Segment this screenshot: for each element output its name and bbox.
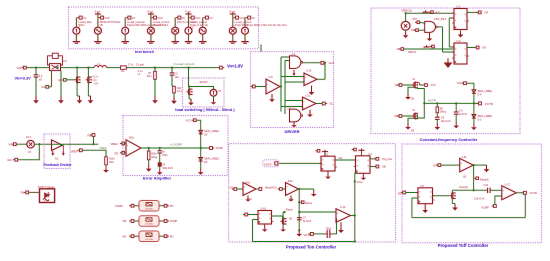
wire [495, 196, 502, 205]
buffer cell X3 [139, 231, 159, 242]
ground [311, 88, 313, 92]
comparator U-14 [336, 209, 351, 223]
diode D6 SER_LABEL [199, 158, 203, 161]
ground [436, 123, 438, 127]
svg-text:D-3: D-3 [478, 119, 483, 122]
svg-text:Q: Q [464, 14, 466, 16]
svg-text:A-cm: A-cm [229, 10, 235, 13]
svg-text:IC=0: IC=0 [62, 61, 68, 63]
ground [455, 122, 457, 126]
wire [66, 79, 74, 81]
buffer U-10 [304, 73, 317, 86]
port VCMP [159, 220, 164, 222]
diode D4 SER_LABEL [472, 90, 476, 93]
ground [154, 96, 156, 100]
resistor R4 [121, 66, 127, 69]
ground [309, 111, 311, 115]
svg-text:VREF: VREF [71, 149, 78, 153]
Feedback Divider box [44, 134, 70, 169]
op-amp E1 [52, 140, 63, 151]
ground [293, 122, 295, 125]
svg-text:Q: Q [367, 160, 369, 162]
svg-text:OP: OP [485, 12, 489, 15]
svg-text:-: - [460, 168, 461, 171]
wire clk [406, 12, 454, 14]
DRIVER box [251, 52, 334, 128]
svg-text:U-10: U-10 [306, 70, 312, 73]
wire VCTR node [417, 87, 424, 118]
svg-text:R10: R10 [327, 228, 332, 231]
ground [447, 58, 449, 62]
port ON2 [399, 48, 401, 50]
svg-text:-t(3.3)/0u: -t(3.3)/0u [145, 207, 154, 210]
ground [313, 189, 315, 191]
svg-text:Proposed Ton Controller: Proposed Ton Controller [286, 245, 337, 250]
svg-text:PD: PD [170, 234, 174, 238]
flip-flop U-1 [454, 9, 467, 30]
ground [282, 224, 284, 227]
wire [466, 83, 474, 123]
svg-text:test bench: test bench [135, 50, 155, 54]
capacitor C comp [159, 147, 161, 149]
port ON lower [397, 84, 399, 86]
wire driver mesh [280, 86, 281, 88]
svg-text:U-6: U-6 [457, 40, 462, 43]
wire [412, 197, 418, 199]
ground [213, 99, 215, 102]
svg-text:VCC: VCC [186, 119, 191, 122]
svg-text:VCTR: VCTR [485, 102, 494, 106]
resistor R6 [436, 102, 438, 104]
svg-text:VCMP: VCMP [115, 204, 123, 208]
svg-text:-: - [127, 152, 128, 155]
svg-text:400p IC=0: 400p IC=0 [162, 168, 173, 170]
ground [247, 196, 249, 197]
svg-text:Prop: Prop [357, 180, 363, 184]
test bench source column V1 [75, 18, 77, 28]
port VCC right [420, 84, 425, 86]
diode D3 SER_LABEL [472, 115, 476, 118]
svg-text:14.4: 14.4 [177, 90, 182, 93]
transistor Q toff [450, 195, 452, 197]
power VCC [352, 149, 354, 151]
buffer U-11 [303, 97, 317, 110]
svg-text:4p IC=0: 4p IC=0 [303, 220, 312, 223]
port PD [159, 205, 164, 207]
Error Amplifier box [123, 116, 228, 176]
wire [433, 195, 450, 197]
ground [105, 165, 107, 167]
port Ramp [298, 201, 300, 203]
port VCTR toff [521, 192, 523, 194]
ground [340, 222, 342, 226]
wire load branch [187, 67, 189, 69]
svg-text:VC: VC [252, 17, 256, 20]
svg-text:-: - [305, 82, 306, 85]
svg-text:Constant-frequency Controller: Constant-frequency Controller [419, 137, 477, 142]
ground [56, 67, 58, 69]
wire [473, 164, 486, 166]
svg-text:SER_LABEL: SER_LABEL [204, 157, 219, 161]
svg-text:ON: ON [482, 47, 486, 50]
svg-text:RampS: RampS [460, 186, 469, 189]
ground [486, 165, 488, 169]
capacitor C7 [297, 217, 302, 219]
wire [351, 215, 355, 217]
test bench source column V4 [150, 12, 152, 14]
svg-text:R10: R10 [109, 161, 114, 164]
svg-text:-: - [337, 219, 338, 222]
wire [16, 143, 27, 145]
ground [473, 124, 475, 128]
gate FFD_RST [425, 21, 436, 32]
svg-text:MSECLK: MSECLK [402, 9, 413, 13]
svg-text:AC 1: AC 1 [26, 136, 32, 139]
ground [173, 97, 175, 101]
test bench box [69, 7, 259, 49]
wire bottom feedback toff [524, 194, 526, 217]
svg-text:FBCLK: FBCLK [408, 50, 417, 54]
svg-text:U-9: U-9 [269, 76, 274, 79]
ground [454, 204, 456, 208]
svg-text:VC: VC [83, 17, 87, 20]
svg-text:VCC: VCC [195, 17, 200, 20]
power VCC [315, 150, 317, 152]
svg-text:VC1: VC1 [17, 66, 23, 70]
ground [405, 32, 407, 36]
transistor M3 [187, 91, 189, 93]
port error amp in- [120, 152, 122, 154]
svg-text:GB: GB [382, 166, 386, 169]
ground [271, 96, 273, 100]
net label Ramp [283, 211, 285, 213]
comparator U-17 [502, 186, 517, 200]
ground [190, 99, 192, 103]
test bench source column V2 [97, 12, 99, 14]
svg-text:Error Amplifier: Error Amplifier [143, 176, 172, 181]
svg-text:SN: SN [398, 193, 402, 196]
wire [441, 164, 460, 166]
svg-text:Q: Q [332, 160, 334, 162]
net flag VOTA [263, 160, 280, 167]
wire set [335, 159, 356, 161]
svg-text:Trig_pha: Trig_pha [382, 158, 392, 161]
wire main bus [26, 67, 49, 69]
capacitor C9 [436, 113, 438, 117]
svg-text:-8.0u: -8.0u [287, 180, 293, 183]
svg-text:SER_LABEL: SER_LABEL [204, 129, 219, 133]
port driver input [250, 86, 252, 88]
port OTA2 in [278, 188, 280, 190]
diode pop [44, 192, 48, 197]
wire [255, 86, 266, 88]
test bench source column V5 [174, 18, 176, 28]
svg-text:VCC: VCC [239, 17, 244, 20]
svg-text:-t(3.3)/0u: -t(3.3)/0u [145, 238, 154, 241]
transistor M2 [86, 79, 88, 81]
svg-text:SN: SN [122, 234, 126, 238]
resistor R feedback [148, 147, 150, 149]
svg-text:Vo=1.8V: Vo=1.8V [227, 63, 243, 68]
svg-text:STP: STP [413, 18, 418, 21]
port GH [324, 62, 326, 64]
Proposed Toff Controller box [402, 144, 542, 243]
svg-text:A-cm: A-cm [185, 10, 191, 13]
wire [82, 150, 106, 157]
svg-text:VCTR: VCTR [530, 191, 537, 195]
wire [491, 189, 502, 191]
wire [237, 188, 243, 190]
power VCC [425, 10, 427, 12]
capacitor C10 [487, 188, 489, 193]
ground [52, 151, 54, 154]
svg-text:Ramp: Ramp [286, 209, 293, 212]
op-amp U13 [243, 183, 256, 196]
svg-text:-t(3.3)/0u: -t(3.3)/0u [145, 223, 154, 226]
ground [460, 31, 462, 35]
op-amp U-4 ramp [282, 188, 285, 190]
test bench source column V6 [188, 12, 190, 14]
test bench source column V3 [124, 18, 126, 28]
svg-text:VREF: VREF [111, 142, 119, 146]
buffer cell X1 [139, 201, 159, 212]
capacitor R10 ton [313, 233, 325, 235]
svg-text:Feedback Divider: Feedback Divider [43, 163, 72, 167]
test bench source column V7 [202, 18, 204, 28]
svg-text:U-16: U-16 [261, 208, 267, 211]
capacitor V5 input [35, 67, 37, 69]
svg-text:ON: ON [397, 48, 401, 51]
svg-text:U-17: U-17 [505, 183, 511, 186]
port VCMP [212, 147, 214, 149]
svg-text:1Meg: 1Meg [151, 156, 158, 159]
port RampVCC [257, 188, 259, 190]
flip-flop U-6 [454, 43, 467, 64]
svg-text:Ramp: Ramp [305, 201, 312, 205]
svg-text:FB: FB [123, 219, 127, 223]
svg-text:U-2: U-2 [324, 154, 329, 157]
svg-text:SER_LABEL: SER_LABEL [478, 89, 493, 93]
wire [279, 162, 322, 164]
port VCTR out [473, 102, 475, 104]
svg-text:SN: SN [21, 191, 25, 195]
svg-text:VCC: VCC [457, 82, 462, 85]
flip-flop U-7 [356, 156, 371, 174]
svg-text:-: - [244, 192, 245, 195]
wire ramp branch [473, 165, 475, 190]
resistor R10 [105, 157, 108, 165]
ground [290, 196, 292, 197]
svg-text:10u: 10u [175, 76, 180, 79]
svg-text:C-Load_current: C-Load_current [174, 62, 195, 66]
transistor G8 [412, 84, 414, 86]
wire [370, 166, 376, 168]
svg-text:SER_LABEL: SER_LABEL [478, 114, 493, 118]
svg-text:U-4: U-4 [292, 53, 297, 56]
wire Prop node [362, 172, 364, 174]
svg-text:GRN: GRN [58, 79, 64, 82]
ground [429, 35, 431, 39]
wire [253, 219, 259, 221]
svg-text:500u: 500u [129, 137, 135, 140]
wire [93, 136, 95, 144]
ground [408, 118, 415, 123]
svg-text:OFF: OFF [394, 115, 399, 118]
wire [402, 84, 412, 86]
port error amp in+ [120, 143, 122, 145]
svg-text:GH?: GH? [329, 61, 335, 65]
wire [437, 26, 442, 28]
op-amp error amplifier [126, 140, 141, 157]
ground [200, 169, 202, 173]
svg-text:100n: 100n [162, 154, 168, 157]
svg-text:Q: Q [430, 192, 432, 194]
svg-text:C1+1: C1+1 [93, 77, 99, 79]
svg-text:ON: ON [395, 84, 399, 87]
op-amp U-9 [266, 79, 280, 94]
capacitor C8 [455, 102, 457, 104]
svg-text:Proposed Toff Controller: Proposed Toff Controller [438, 243, 489, 248]
test bench source column V9 [244, 18, 246, 28]
power VCC [426, 45, 428, 47]
sense element with bypass loop [50, 64, 61, 71]
svg-text:Q: Q [464, 48, 466, 50]
svg-text:U-11: U-11 [305, 94, 311, 97]
ground [327, 171, 329, 173]
ground [424, 204, 426, 206]
wire [467, 47, 476, 49]
wire VREF out [60, 144, 63, 146]
svg-text:GL: GL [330, 102, 334, 106]
source V7 [210, 89, 217, 96]
svg-text:VCMP: VCMP [481, 205, 489, 209]
diode D5 SER_LABEL [199, 130, 203, 133]
svg-text:2.4p IC=0: 2.4p IC=0 [474, 198, 485, 201]
port OP [476, 11, 478, 13]
Proposed Ton Controller box [229, 144, 396, 242]
port RampS [474, 177, 476, 179]
wire to GH [302, 62, 321, 64]
svg-text:-: - [503, 196, 504, 199]
svg-text:VC: VC [132, 17, 136, 20]
svg-text:Set: Set [339, 156, 343, 160]
svg-text:A_VCMP: A_VCMP [171, 143, 183, 147]
svg-text:VCTR: VCTR [428, 99, 437, 103]
svg-text:VCC: VCC [105, 17, 110, 20]
wire [18, 144, 40, 160]
svg-text:C10: C10 [484, 184, 489, 187]
wire ramp line [452, 189, 487, 191]
svg-text:DRIVER: DRIVER [284, 129, 299, 134]
port ON out [474, 47, 476, 49]
svg-text:1Meg: 1Meg [440, 111, 447, 114]
svg-text:-: - [286, 192, 287, 195]
svg-text:VCC: VCC [431, 84, 436, 87]
port VCMP toff [492, 205, 494, 207]
svg-text:MOSLOT27/Clock: MOSLOT27/Clock [100, 20, 121, 24]
port Vout [222, 67, 224, 69]
capacitor C2 [171, 67, 173, 69]
buffer cell X2 [139, 216, 159, 227]
port Trig_pha [374, 158, 376, 160]
wire [370, 158, 376, 160]
ground [90, 96, 92, 100]
port GL [325, 103, 327, 105]
ground [362, 173, 364, 175]
svg-text:-: - [267, 90, 268, 93]
oscillator V9 [405, 13, 407, 22]
svg-text:30m: 30m [147, 75, 152, 78]
svg-text:VCC: VCC [435, 11, 440, 14]
svg-text:VAC: VAC [7, 158, 12, 162]
svg-text:C-8: C-8 [459, 110, 464, 113]
wire [34, 143, 51, 145]
ground [148, 165, 150, 169]
svg-text:A-cm: A-cm [147, 10, 153, 13]
svg-text:Pulse 500m 0 50u 10u 5m 10n 2m: Pulse 500m 0 50u 10u 5m 10n 2m) [247, 23, 287, 27]
svg-text:Pulse 0 500m: Pulse 0 500m [153, 23, 169, 27]
wire [404, 48, 454, 50]
svg-text:VOTA: VOTA [264, 162, 271, 166]
wire output VCMP [141, 147, 210, 149]
load switching box [183, 78, 225, 107]
wire [467, 11, 478, 13]
inductor L1 [94, 66, 106, 68]
wire to GL [316, 103, 322, 105]
wire [256, 188, 259, 190]
buffer U-5 [290, 109, 301, 122]
port VCTR ton [308, 233, 310, 235]
svg-text:C-Load: C-Load [136, 63, 145, 66]
junction [200, 147, 202, 149]
flip-flop U-2 [321, 156, 335, 171]
svg-text:U-1: U-1 [457, 6, 462, 9]
svg-text:-: - [303, 106, 304, 109]
transistor G9 [397, 115, 399, 117]
svg-text:A-cm: A-cm [94, 10, 100, 13]
svg-text:VC: VC [182, 17, 186, 20]
ground [408, 87, 415, 93]
svg-text:VC: VC [209, 17, 213, 20]
resistor R7 [154, 67, 156, 69]
svg-text:-1.8u: -1.8u [461, 156, 467, 159]
ground [159, 166, 161, 169]
svg-text:RampS: RampS [480, 177, 489, 181]
svg-text:GM: GM [42, 86, 46, 89]
svg-text:U-14: U-14 [340, 206, 346, 209]
source AC1 [27, 140, 35, 148]
svg-text:4p IC=0: 4p IC=0 [459, 114, 468, 116]
capacitor C4 [158, 163, 161, 166]
svg-text:PD: PD [170, 204, 174, 208]
svg-text:U-5: U-5 [287, 107, 292, 110]
svg-text:VCC: VCC [158, 17, 163, 20]
test bench source column V8 [232, 12, 234, 14]
svg-text:RampVCC: RampVCC [265, 186, 277, 189]
svg-text:Q: Q [269, 214, 271, 216]
ground [298, 229, 300, 231]
transistor U8 [272, 215, 283, 217]
wire bottom feedback [253, 241, 355, 243]
op-amp U6 [460, 158, 474, 172]
wire [196, 120, 201, 168]
port PD [159, 235, 164, 237]
svg-text:FFD_RST: FFD_RST [434, 17, 446, 21]
svg-text:0.7u: 0.7u [128, 63, 133, 66]
svg-text:40p IC=0: 40p IC=0 [441, 121, 451, 123]
wire [332, 219, 337, 234]
svg-text:FB: FB [115, 151, 119, 155]
